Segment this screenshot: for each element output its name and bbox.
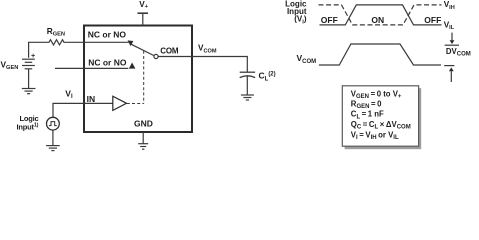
- svg-text:ON: ON: [371, 15, 384, 25]
- svg-text:NC or NO: NC or NO: [88, 58, 127, 68]
- stub wire pin2: [55, 67, 128, 69]
- wire COM to VCOM node: [158, 57, 247, 73]
- svg-text:VCOM: VCOM: [297, 53, 317, 65]
- svg-text:Input1): Input1): [17, 122, 39, 131]
- VCOM waveform trace: [319, 44, 441, 65]
- ground of GND: [138, 144, 148, 150]
- ground of VGEN: [22, 89, 36, 94]
- wire V+ to box: [142, 13, 144, 25]
- svg-text:VGEN: VGEN: [1, 60, 19, 72]
- contact arrow pin1: [128, 40, 134, 46]
- wire logic source to IN: [53, 103, 113, 117]
- wire resistor to NC/NO pin 1: [66, 41, 129, 43]
- dashed actuator line: [127, 51, 144, 104]
- ground of CL: [241, 95, 254, 100]
- svg-text:VIL: VIL: [444, 21, 455, 32]
- svg-text:(VI): (VI): [294, 15, 307, 26]
- svg-text:CL(2): CL(2): [259, 71, 276, 83]
- wire VGEN to resistor: [29, 42, 48, 58]
- pulse glyph: [49, 122, 57, 126]
- note box shadow: [345, 88, 422, 149]
- battery VGEN: [22, 59, 35, 88]
- wire GND to ground: [142, 132, 144, 144]
- resistor RGEN zigzag: [48, 40, 66, 45]
- svg-text:+: +: [31, 51, 35, 60]
- svg-text:NC or NO: NC or NO: [88, 30, 127, 40]
- ground of logic source: [52, 130, 54, 145]
- dVCOM upper tick: [445, 44, 459, 46]
- dVCOM up arrow: [449, 67, 454, 71]
- svg-text:V+: V+: [139, 0, 148, 10]
- dVCOM lower tick: [444, 65, 454, 67]
- contact arrow pin2: [129, 63, 136, 69]
- note box: [342, 86, 418, 146]
- svg-text:GND: GND: [134, 119, 153, 129]
- capacitor CL: [240, 71, 255, 73]
- svg-text:COM: COM: [160, 47, 179, 56]
- V+ power bar: [138, 12, 149, 14]
- svg-text:OFF: OFF: [321, 15, 338, 25]
- svg-text:DVCOM: DVCOM: [446, 47, 471, 58]
- svg-text:IN: IN: [87, 94, 96, 104]
- buffer triangle: [113, 96, 127, 110]
- svg-text:RGEN: RGEN: [47, 26, 65, 38]
- dVCOM down arrow: [451, 33, 453, 41]
- svg-text:VCOM: VCOM: [198, 44, 217, 55]
- logic input source circle: [47, 117, 60, 130]
- svg-text:VIH: VIH: [444, 0, 455, 11]
- DUT box: [84, 26, 192, 133]
- logic waveform dashed trace: [319, 5, 442, 25]
- svg-text:VI: VI: [65, 89, 73, 101]
- logic waveform solid trace: [320, 5, 442, 25]
- wire cap to ground: [246, 77, 248, 95]
- switch lever: [131, 44, 154, 55]
- svg-text:OFF: OFF: [424, 15, 441, 25]
- switch pole circle: [154, 54, 158, 58]
